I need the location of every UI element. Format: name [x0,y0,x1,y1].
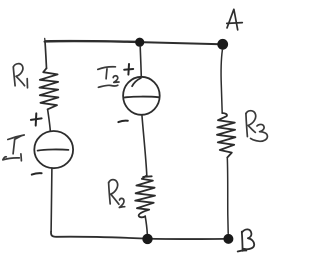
label I1 [3,135,24,161]
node dot top middle [135,38,144,47]
wire junction to I2 [140,47,141,77]
current source I2 [123,77,160,115]
resistor R2 [135,175,155,217]
minus sign I1 [32,173,42,174]
resistor R1 [40,68,59,109]
label A [227,9,243,30]
label R3 [246,111,268,142]
wire R1 to I1 [48,109,51,131]
wire I1 to bottom corner [50,168,53,231]
minus sign I2 [118,121,127,122]
node dot A [217,39,228,50]
wire A to R3 [221,50,222,113]
label R2 [109,180,125,208]
wire R2 to bottom node [145,216,147,234]
label B [238,229,255,251]
wire I2 to R2 [142,115,147,176]
wire bottom [51,231,225,239]
current source I1 [34,131,73,168]
node dot B [223,234,233,244]
wire left vertical (top) [45,42,47,69]
label R1 [13,64,27,88]
plus sign I1 [31,113,42,125]
plus sign I2 [124,64,133,75]
wire top [45,38,222,44]
label I2 [98,67,119,88]
resistor R3 [217,113,235,158]
node dot bottom middle [142,234,152,244]
wire R3 to B [226,158,229,234]
